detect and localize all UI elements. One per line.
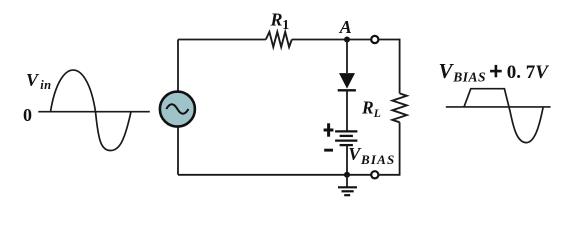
battery VBIAS plate short 1 (340, 135, 353, 137)
diode D1 triangle (339, 73, 355, 89)
output waveform axis (446, 106, 551, 108)
ground bar 3 (344, 194, 350, 196)
svg-text:0. 7V: 0. 7V (507, 62, 550, 83)
wire top middle segment (292, 39, 371, 41)
wire left vertical bottom (177, 127, 179, 175)
wire diode to battery (346, 90, 348, 131)
output clipped waveform (464, 89, 543, 143)
svg-text:A: A (339, 17, 352, 37)
svg-text:R: R (361, 98, 374, 118)
svg-text:V: V (439, 59, 455, 83)
ac source sine symbol (166, 104, 188, 114)
diode D1 cathode bar (338, 89, 356, 91)
wire left vertical top (177, 40, 179, 92)
wire top left segment (178, 39, 266, 41)
svg-text:L: L (373, 108, 381, 120)
label battery minus (324, 149, 333, 152)
junction dot bottom (344, 172, 350, 178)
ac source V1 (160, 92, 195, 127)
wire battery to bottom (346, 145, 348, 175)
svg-text:0: 0 (23, 105, 32, 125)
wire top right segment (378, 39, 399, 41)
battery VBIAS plate long 1 (335, 130, 357, 132)
resistor RL (392, 93, 406, 122)
output terminal top (open circle) (371, 36, 378, 43)
wire bottom right segment (378, 174, 399, 176)
wire right vertical upper (399, 39, 401, 94)
ground bar 2 (342, 190, 354, 192)
battery VBIAS plate long 2 (335, 139, 357, 141)
ground bar 1 (338, 186, 357, 188)
svg-text:BIAS: BIAS (360, 152, 395, 167)
wire node A to diode (346, 40, 348, 74)
svg-text:R: R (270, 10, 283, 30)
battery VBIAS plate short 2 (340, 144, 353, 146)
wire bottom left segment (178, 174, 371, 176)
node A junction dot (344, 37, 350, 43)
wire right vertical lower (399, 122, 401, 175)
input sine wave (51, 70, 132, 150)
input waveform axis (38, 111, 150, 113)
resistor R1 (266, 32, 292, 47)
svg-text:in: in (40, 78, 51, 92)
svg-text:V: V (26, 70, 40, 90)
svg-text:1: 1 (282, 18, 289, 33)
svg-text:BIAS: BIAS (452, 69, 486, 84)
output terminal bottom (open circle) (371, 171, 378, 178)
label battery plus (324, 129, 334, 132)
ground stub (346, 175, 348, 188)
